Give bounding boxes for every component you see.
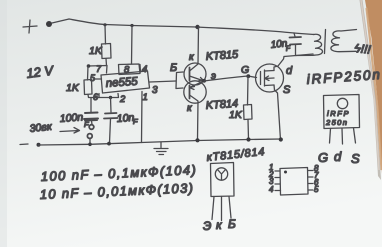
package TO-247 text bbox=[325, 109, 350, 127]
node Q3 source rail dot bbox=[279, 137, 283, 141]
label S source bbox=[283, 84, 291, 96]
label U1 ne555 bbox=[105, 76, 138, 90]
label R2 1K bbox=[66, 82, 80, 94]
svg-text:30вк: 30вк bbox=[29, 121, 53, 135]
package TO-247 body bbox=[324, 95, 360, 129]
package DIP-8 pin1 dot bbox=[284, 171, 287, 174]
node gate / R3 tap bbox=[246, 74, 250, 78]
svg-text:F: F bbox=[133, 117, 138, 126]
label pin 4 bbox=[142, 64, 147, 75]
svg-text:4: 4 bbox=[269, 185, 274, 194]
transistor Q2 KT814 circle bbox=[184, 81, 206, 103]
svg-text:1K: 1K bbox=[229, 109, 243, 121]
node A junction dot bbox=[87, 64, 91, 68]
node emitter junction bbox=[202, 79, 206, 83]
svg-text:ne555: ne555 bbox=[105, 76, 138, 90]
capacitor C1 100n plates bbox=[84, 113, 98, 121]
mosfet Q3 source stub bbox=[265, 84, 275, 87]
transformer core line bbox=[325, 30, 326, 54]
switch S1 contact dot bbox=[46, 21, 52, 27]
wire top rail to primary top bbox=[294, 33, 314, 35]
labels DIP-8 right pin numbers bbox=[314, 164, 319, 194]
transformer primary coil bbox=[296, 34, 323, 55]
wire R1 top lead bbox=[104, 25, 107, 44]
svg-text:iRFP: iRFP bbox=[327, 109, 350, 118]
transformer secondary coil bbox=[331, 30, 357, 52]
svg-text:8: 8 bbox=[124, 65, 130, 76]
svg-text:4: 4 bbox=[142, 64, 147, 75]
label spark 4!!! bbox=[354, 41, 372, 57]
arrow to terminal bbox=[60, 128, 80, 134]
resistor R1 1K bbox=[102, 44, 112, 59]
transistor Q1 collector bbox=[190, 27, 199, 71]
label C1 100n bbox=[59, 111, 89, 129]
label C3 10n bbox=[270, 38, 291, 53]
label Q2 KT814 bbox=[205, 98, 238, 112]
wire R3 top lead bbox=[247, 77, 250, 106]
svg-text:Э: Э bbox=[203, 219, 211, 233]
package TO-126 die symbol bbox=[215, 168, 227, 180]
wire R3 bottom lead bbox=[247, 120, 250, 140]
table corner (top-right) bbox=[360, 0, 382, 180]
wire emitters to gate bbox=[204, 76, 257, 81]
mosfet Q3 circle bbox=[256, 64, 284, 92]
label Q1 k collector bbox=[189, 52, 195, 63]
ground symbol bbox=[154, 142, 168, 155]
capacitor C3 plates bbox=[290, 37, 302, 45]
mosfet Q3 gate bar bbox=[260, 72, 262, 85]
wire drain node to primary bottom bbox=[284, 54, 313, 57]
wire pin8 to top rail bbox=[131, 26, 134, 65]
package DIP-8 right pins bbox=[308, 171, 313, 191]
svg-text:3: 3 bbox=[152, 85, 158, 96]
node Q1 collector tap bbox=[195, 25, 199, 29]
transistor Q2 collector bbox=[190, 95, 199, 140]
labels DIP-8 left pin numbers bbox=[268, 163, 274, 194]
node R1 tap bbox=[103, 23, 106, 26]
label 12V bbox=[26, 63, 56, 81]
svg-text:d: d bbox=[334, 149, 342, 164]
svg-text:250n: 250n bbox=[325, 118, 348, 127]
switch S1 lever bbox=[52, 19, 69, 23]
label R1 1K bbox=[89, 45, 103, 57]
wire pin 4 lead bbox=[139, 65, 142, 73]
label pin 1 bbox=[143, 92, 148, 103]
label G gate bbox=[241, 64, 249, 76]
pin8 box bbox=[119, 64, 141, 75]
label KT815/814 bbox=[206, 146, 266, 164]
capacitor C2 10n plates bbox=[104, 113, 118, 119]
label e emitter bbox=[211, 71, 216, 82]
wire C3 bottom lead bbox=[295, 45, 297, 56]
package TO-126 legs bbox=[212, 197, 231, 221]
wire C2 bottom lead bbox=[110, 119, 111, 143]
svg-text:d: d bbox=[286, 65, 293, 77]
node rail start dot bbox=[37, 143, 41, 147]
node C2 rail dot bbox=[107, 142, 111, 146]
label pin 7 bbox=[96, 64, 102, 74]
svg-text:ϟ!!!: ϟ!!! bbox=[354, 41, 372, 57]
node pin8 tap bbox=[130, 24, 133, 27]
wire C1 bottom lead bbox=[91, 121, 94, 125]
mosfet Q3 body stub with arrow bbox=[265, 76, 275, 81]
wire R1 bottom to node A bbox=[105, 59, 108, 66]
wire C3 top tap from rail bbox=[294, 33, 295, 37]
label pin 2 bbox=[119, 94, 126, 105]
wire pin 3 to base bracket bbox=[150, 81, 177, 82]
label pin 6 bbox=[93, 92, 98, 102]
svg-text:2: 2 bbox=[119, 94, 126, 105]
wire C1 top lead bbox=[90, 98, 92, 112]
label Q1 KT815 bbox=[205, 49, 239, 63]
package TO-126 body bbox=[211, 163, 235, 197]
label d drain bbox=[286, 65, 293, 77]
svg-text:F: F bbox=[84, 120, 89, 129]
wire node A horizontal (R2 top to pin7) bbox=[88, 66, 107, 74]
wire terminal stub to rail bbox=[89, 139, 91, 145]
svg-text:S: S bbox=[351, 151, 360, 166]
svg-text:6: 6 bbox=[93, 92, 98, 102]
label iRFP250n bbox=[306, 67, 382, 87]
node Q2 collector rail dot bbox=[195, 138, 199, 142]
note line 1: 100nF equivalence bbox=[40, 162, 197, 184]
mosfet Q3 channel bar bbox=[264, 70, 266, 86]
wire C2 top lead bbox=[110, 98, 113, 113]
resistor R2 1K bbox=[84, 80, 92, 95]
wire pin 1 to ground rail bbox=[141, 92, 144, 143]
note line 2: 10nF equivalence bbox=[39, 180, 194, 202]
package DIP-8 body bbox=[280, 168, 308, 196]
package TO-247 hole bbox=[337, 98, 347, 108]
wire R2 bottom to pin6 bus bbox=[88, 94, 99, 98]
minus terminal bbox=[20, 143, 28, 146]
svg-text:100n: 100n bbox=[59, 111, 83, 125]
svg-text:5: 5 bbox=[314, 185, 319, 194]
label pin 3 bbox=[152, 85, 158, 96]
svg-text:KT815: KT815 bbox=[205, 49, 239, 63]
label pin 8 bbox=[124, 65, 130, 76]
node C1 terminal rail dot bbox=[88, 143, 92, 147]
label 30vk bbox=[29, 121, 53, 135]
mosfet Q3 drain stub bbox=[265, 70, 275, 73]
wire Q3 source down to rail bbox=[274, 85, 281, 140]
wire R2 top lead bbox=[87, 66, 90, 80]
svg-text:1: 1 bbox=[143, 92, 148, 103]
label C2 10nF bbox=[116, 112, 138, 126]
svg-text:G: G bbox=[318, 150, 328, 165]
svg-text:1K: 1K bbox=[89, 45, 103, 57]
wire Q3 drain up bbox=[274, 57, 284, 71]
label pin 5 bbox=[90, 73, 96, 83]
wire ground bottom rail bbox=[39, 139, 282, 145]
node R3 rail dot bbox=[246, 137, 250, 141]
plus terminal symbol bbox=[23, 20, 37, 33]
ne555 U1 body bbox=[101, 71, 150, 93]
resistor R3 1K bbox=[244, 105, 253, 120]
transistor Q2 base bar bbox=[189, 86, 191, 99]
wire pin6-pin2 bus bbox=[99, 94, 119, 98]
label G d S pins bbox=[318, 149, 360, 166]
node C2 tap on bus bbox=[109, 96, 112, 99]
package DIP-8 left pins bbox=[275, 171, 281, 191]
svg-text:Б: Б bbox=[228, 217, 236, 231]
terminal circle upper bbox=[89, 125, 94, 130]
package TO-247 legs bbox=[330, 128, 356, 144]
label R3 1K bbox=[229, 109, 243, 121]
label B base node bbox=[170, 62, 177, 74]
base bracket wire bbox=[176, 72, 183, 89]
transistor Q2 emitter with arrow bbox=[190, 81, 205, 90]
wire pin 5 stub bbox=[95, 78, 102, 80]
wire +12V top rail bbox=[69, 19, 294, 33]
terminal circle lower bbox=[87, 134, 92, 139]
svg-text:1K: 1K bbox=[66, 82, 80, 94]
label Q2 k collector bbox=[187, 103, 193, 114]
svg-text:G: G bbox=[241, 64, 249, 76]
label E k B pins bbox=[203, 217, 236, 233]
transistor Q1 KT815 circle bbox=[184, 63, 206, 85]
svg-text:S: S bbox=[283, 84, 291, 96]
transistor Q1 base bar bbox=[189, 68, 191, 81]
transistor Q1 emitter with arrow bbox=[190, 76, 205, 81]
